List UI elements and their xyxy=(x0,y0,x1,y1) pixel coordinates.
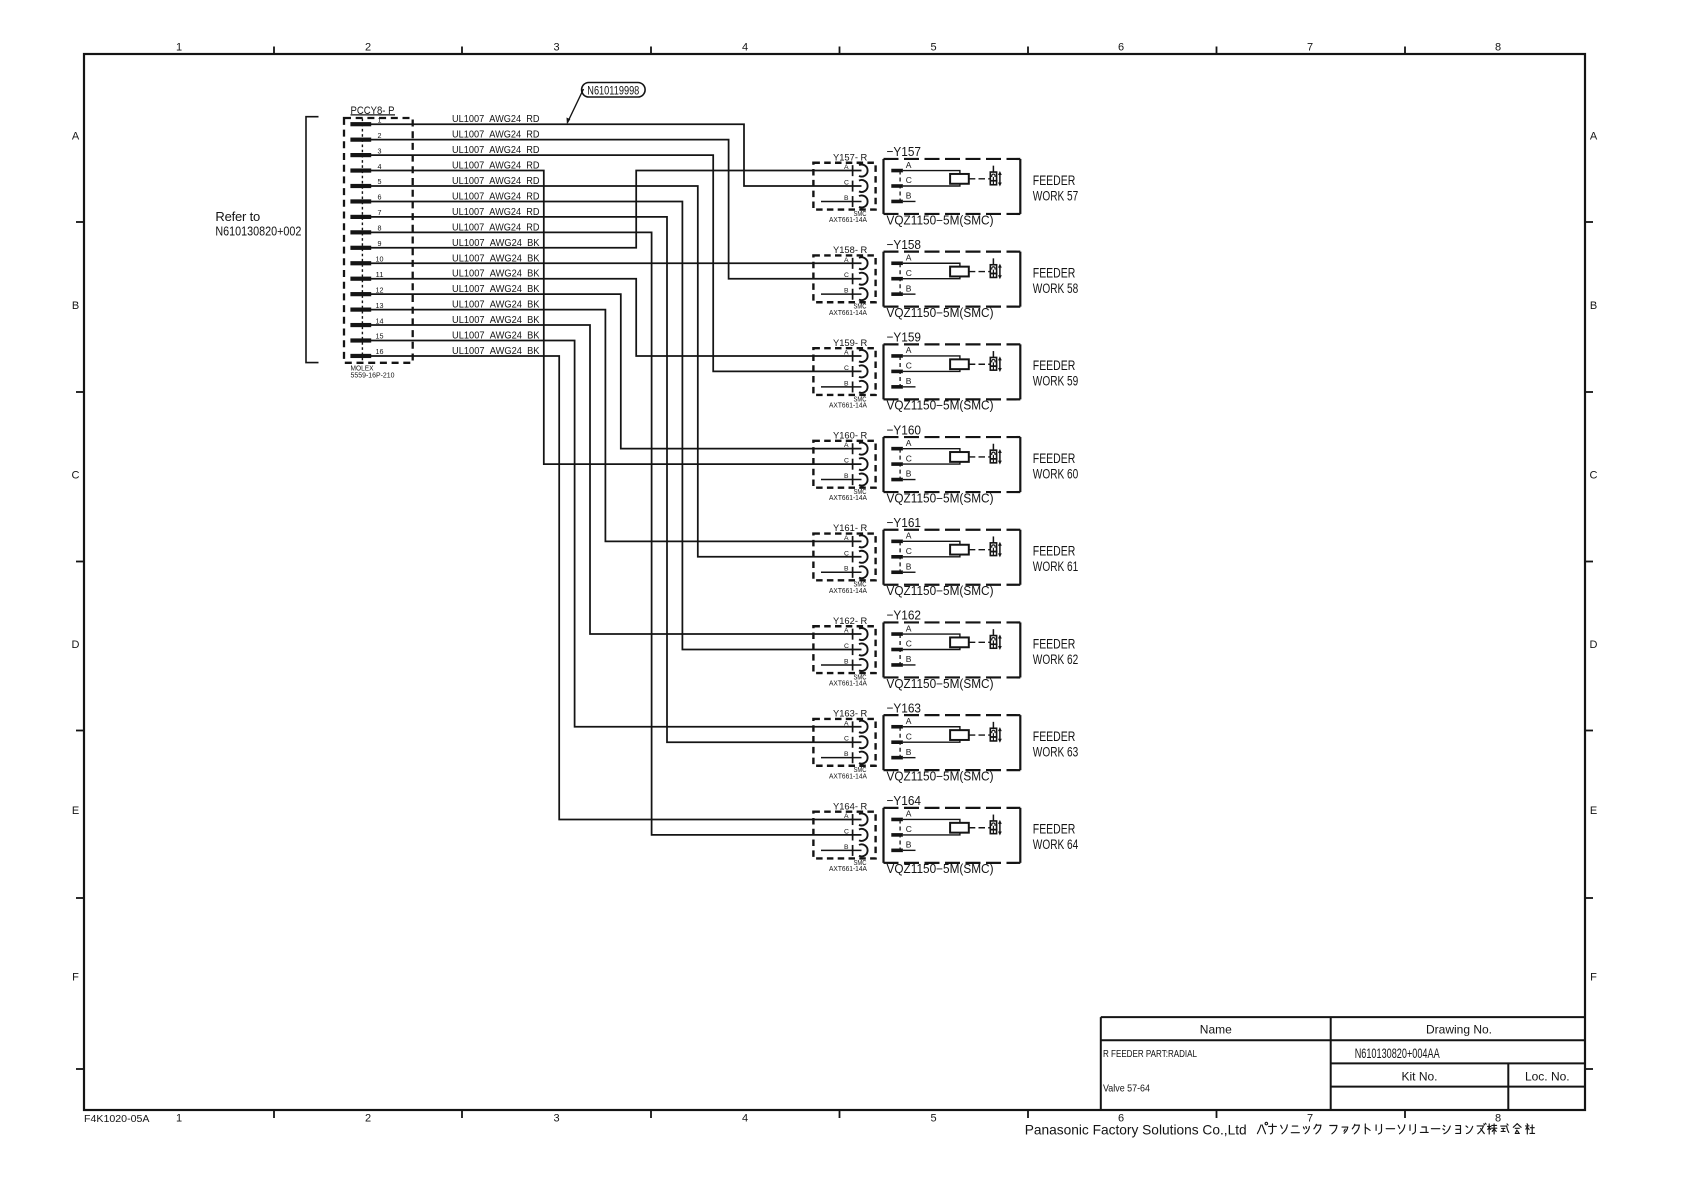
svg-text:5: 5 xyxy=(930,42,936,54)
svg-text:Panasonic Factory Solutions Co: Panasonic Factory Solutions Co.,Ltd xyxy=(1025,1122,1247,1138)
svg-text:Name: Name xyxy=(1200,1023,1232,1037)
svg-text:WORK 61: WORK 61 xyxy=(1033,559,1079,574)
svg-text:B: B xyxy=(1590,300,1597,312)
svg-text:WORK 64: WORK 64 xyxy=(1033,837,1079,852)
svg-text:Y158- R: Y158- R xyxy=(833,245,867,256)
svg-text:UL1007 AWG24 RD: UL1007 AWG24 RD xyxy=(452,207,540,218)
svg-text:F4K1020-05A: F4K1020-05A xyxy=(84,1114,150,1125)
svg-text:UL1007 AWG24 BK: UL1007 AWG24 BK xyxy=(452,315,540,326)
svg-text:UL1007 AWG24 BK: UL1007 AWG24 BK xyxy=(452,300,540,311)
svg-text:1: 1 xyxy=(378,115,382,124)
svg-text:Y164- R: Y164- R xyxy=(833,801,867,812)
svg-text:3: 3 xyxy=(553,42,559,54)
svg-text:5: 5 xyxy=(930,1113,936,1125)
svg-text:Y162- R: Y162- R xyxy=(833,616,867,627)
svg-text:3: 3 xyxy=(553,1113,559,1125)
svg-text:6: 6 xyxy=(1118,42,1124,54)
svg-text:4: 4 xyxy=(742,42,748,54)
svg-text:1: 1 xyxy=(176,1113,182,1125)
svg-text:C: C xyxy=(72,470,80,482)
svg-text:WORK 57: WORK 57 xyxy=(1033,188,1079,203)
svg-text:UL1007 AWG24 BK: UL1007 AWG24 BK xyxy=(452,269,540,280)
svg-text:Kit No.: Kit No. xyxy=(1401,1070,1437,1084)
svg-text:Drawing No.: Drawing No. xyxy=(1426,1023,1492,1037)
svg-text:WORK 59: WORK 59 xyxy=(1033,374,1079,389)
svg-text:Y161- R: Y161- R xyxy=(833,523,867,534)
svg-text:4: 4 xyxy=(378,162,382,171)
svg-text:A: A xyxy=(1590,131,1598,143)
svg-text:3: 3 xyxy=(378,146,382,155)
svg-text:−Y160: −Y160 xyxy=(887,422,922,437)
svg-text:−Y157: −Y157 xyxy=(887,144,922,159)
svg-text:UL1007 AWG24 RD: UL1007 AWG24 RD xyxy=(452,191,540,202)
svg-text:Y163- R: Y163- R xyxy=(833,709,867,720)
svg-text:UL1007 AWG24 RD: UL1007 AWG24 RD xyxy=(452,130,540,141)
svg-text:E: E xyxy=(1590,805,1597,817)
svg-text:UL1007 AWG24 RD: UL1007 AWG24 RD xyxy=(452,176,540,187)
svg-text:5559-16P-210: 5559-16P-210 xyxy=(351,371,395,380)
svg-text:Valve 57-64: Valve 57-64 xyxy=(1103,1083,1150,1095)
svg-text:D: D xyxy=(1590,639,1598,651)
svg-text:UL1007 AWG24 RD: UL1007 AWG24 RD xyxy=(452,145,540,156)
svg-text:D: D xyxy=(72,639,80,651)
svg-text:1: 1 xyxy=(176,42,182,54)
svg-text:N610130820+004AA: N610130820+004AA xyxy=(1355,1046,1440,1061)
svg-text:5: 5 xyxy=(378,177,382,186)
svg-text:E: E xyxy=(72,805,79,817)
svg-text:Y157- R: Y157- R xyxy=(833,152,867,163)
svg-text:14: 14 xyxy=(376,316,384,325)
svg-text:2: 2 xyxy=(365,42,371,54)
svg-text:UL1007 AWG24 BK: UL1007 AWG24 BK xyxy=(452,346,540,357)
svg-text:8: 8 xyxy=(378,224,382,233)
svg-text:UL1007 AWG24 RD: UL1007 AWG24 RD xyxy=(452,222,540,233)
svg-text:15: 15 xyxy=(376,332,384,341)
svg-text:6: 6 xyxy=(378,193,382,202)
svg-text:A: A xyxy=(72,131,80,143)
svg-text:UL1007 AWG24 BK: UL1007 AWG24 BK xyxy=(452,284,540,295)
svg-text:WORK 63: WORK 63 xyxy=(1033,744,1079,759)
svg-text:Refer to: Refer to xyxy=(215,209,260,224)
svg-text:−Y162: −Y162 xyxy=(887,608,922,623)
svg-text:R FEEDER PART:RADIAL: R FEEDER PART:RADIAL xyxy=(1103,1048,1197,1060)
svg-text:12: 12 xyxy=(376,285,384,294)
svg-text:7: 7 xyxy=(1307,1113,1313,1125)
svg-text:4: 4 xyxy=(742,1113,748,1125)
svg-text:2: 2 xyxy=(365,1113,371,1125)
svg-text:Y160- R: Y160- R xyxy=(833,430,867,441)
svg-text:Y159- R: Y159- R xyxy=(833,338,867,349)
svg-text:UL1007 AWG24 RD: UL1007 AWG24 RD xyxy=(452,161,540,172)
svg-text:9: 9 xyxy=(378,239,382,248)
svg-text:−Y163: −Y163 xyxy=(887,700,922,715)
svg-text:F: F xyxy=(72,972,79,984)
svg-text:−Y164: −Y164 xyxy=(887,793,922,808)
svg-text:UL1007 AWG24 BK: UL1007 AWG24 BK xyxy=(452,253,540,264)
svg-text:11: 11 xyxy=(376,270,384,279)
svg-text:13: 13 xyxy=(376,301,384,310)
svg-text:8: 8 xyxy=(1495,1113,1501,1125)
svg-text:WORK 58: WORK 58 xyxy=(1033,281,1079,296)
svg-text:UL1007 AWG24 RD: UL1007 AWG24 RD xyxy=(452,114,540,125)
svg-text:B: B xyxy=(72,300,79,312)
svg-text:N610119998: N610119998 xyxy=(587,85,639,97)
svg-text:Loc. No.: Loc. No. xyxy=(1525,1070,1570,1084)
svg-text:−Y161: −Y161 xyxy=(887,515,922,530)
svg-text:C: C xyxy=(1590,470,1598,482)
svg-text:N610130820+002: N610130820+002 xyxy=(215,223,301,238)
svg-text:−Y158: −Y158 xyxy=(887,237,922,252)
svg-text:10: 10 xyxy=(376,254,384,263)
svg-text:16: 16 xyxy=(376,347,384,356)
svg-text:−Y159: −Y159 xyxy=(887,330,922,345)
svg-text:F: F xyxy=(1590,972,1597,984)
svg-text:UL1007 AWG24 BK: UL1007 AWG24 BK xyxy=(452,331,540,342)
svg-text:7: 7 xyxy=(1307,42,1313,54)
svg-text:2: 2 xyxy=(378,131,382,140)
svg-text:7: 7 xyxy=(378,208,382,217)
svg-text:WORK 62: WORK 62 xyxy=(1033,652,1079,667)
svg-text:8: 8 xyxy=(1495,42,1501,54)
svg-text:UL1007 AWG24 BK: UL1007 AWG24 BK xyxy=(452,238,540,249)
svg-text:WORK 60: WORK 60 xyxy=(1033,466,1079,481)
